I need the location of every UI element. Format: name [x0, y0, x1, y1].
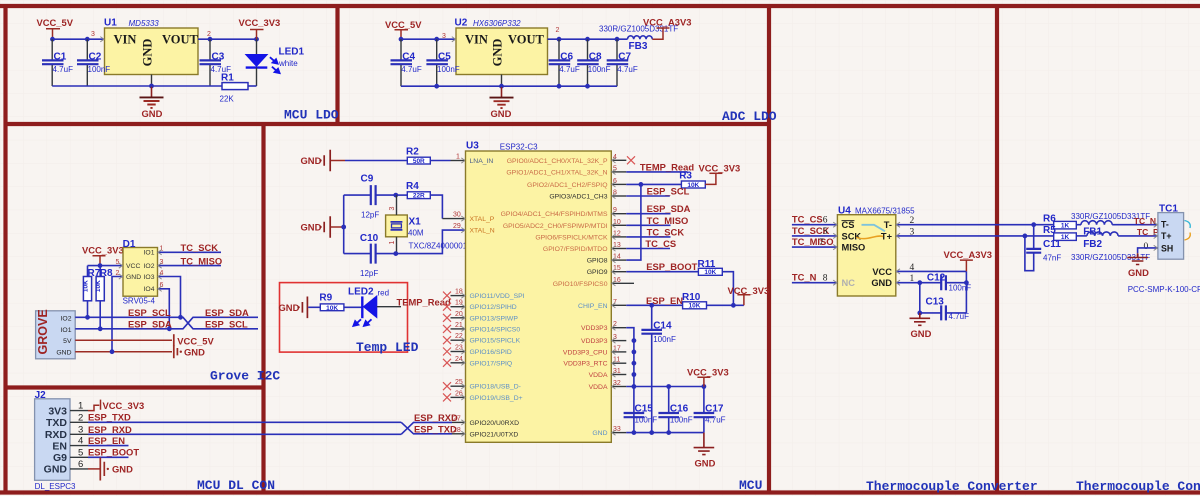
wire ESP_BOOT (J2)	[88, 456, 129, 458]
wire D1 GND down	[112, 277, 123, 352]
svg-text:GPIO17/SPIQ: GPIO17/SPIQ	[470, 360, 513, 367]
svg-text:GND: GND	[592, 430, 607, 437]
power flag VCC_5V (ADC)	[385, 19, 422, 39]
wire TC_SCK (pin12)	[626, 236, 670, 238]
node junction C6	[557, 37, 562, 42]
capacitor C11	[1025, 225, 1061, 271]
ground flag GND (crystal)	[301, 216, 344, 238]
svg-text:GND: GND	[142, 108, 163, 119]
svg-text:ESP_TXD: ESP_TXD	[414, 423, 457, 434]
svg-text:GPIO6/FSPICLK/MTCK: GPIO6/FSPICLK/MTCK	[535, 234, 608, 241]
svg-text:MCU DL CON: MCU DL CON	[197, 478, 275, 493]
wire ESP_SCL row	[75, 317, 258, 329]
node junction VDD pin11	[632, 361, 637, 366]
U3 left pin numbers	[453, 289, 463, 434]
LED LED2 red	[348, 286, 389, 326]
ground flag GND (R2)	[301, 150, 346, 172]
svg-text:GPIO10/FSPICS0: GPIO10/FSPICS0	[553, 281, 608, 288]
node junction pin6	[639, 182, 644, 187]
power flag VCC_3V3 (VDDA)	[687, 367, 729, 387]
svg-text:VCC_3V3: VCC_3V3	[103, 400, 145, 411]
wire GND bus (ADC)	[401, 85, 617, 87]
svg-text:G9: G9	[53, 452, 67, 464]
svg-text:1: 1	[160, 246, 164, 253]
wire TC_SCK	[792, 235, 838, 237]
svg-text:19: 19	[455, 300, 463, 307]
svg-text:R2: R2	[406, 147, 419, 158]
svg-text:C4: C4	[402, 51, 415, 62]
node junction C12/vertical	[964, 280, 969, 285]
connector GROVE	[36, 309, 76, 358]
svg-text:R9: R9	[319, 292, 332, 303]
svg-text:29: 29	[453, 223, 461, 230]
wire ESP_RXD/ESP_TXD crossover	[401, 422, 452, 434]
capacitor C14	[641, 305, 676, 432]
svg-text:GPIO9: GPIO9	[587, 269, 608, 276]
wire TC_MISO (pin10)	[626, 224, 670, 226]
wire XTAL_P	[442, 218, 465, 220]
divider left column / MCU box	[261, 124, 265, 492]
svg-text:VCC: VCC	[872, 267, 892, 277]
resistor R11	[698, 259, 723, 276]
wire U2 VOUT to FB3	[548, 38, 628, 40]
node junction C14 branch	[649, 303, 654, 308]
svg-text:IO1: IO1	[144, 250, 155, 257]
svg-text:VIN: VIN	[114, 33, 137, 47]
svg-text:4.7uF: 4.7uF	[949, 312, 970, 321]
divider MCU / Thermocouple Converter	[767, 6, 771, 492]
node junction VDD pin17	[632, 350, 637, 355]
capacitor C17	[694, 387, 726, 433]
svg-text:U1: U1	[104, 18, 117, 29]
svg-text:HX6306P332: HX6306P332	[473, 19, 521, 28]
svg-text:ESP_SCL: ESP_SCL	[647, 186, 690, 197]
power flag VCC_3V3	[239, 17, 281, 39]
U3 right pin numbers	[613, 154, 621, 433]
svg-text:GPIO15/SPICLK: GPIO15/SPICLK	[470, 338, 521, 345]
capacitor C4	[391, 39, 422, 86]
capacitor C1	[42, 39, 73, 86]
node junction X1 top	[393, 193, 398, 198]
wire VCC to D1	[88, 265, 124, 267]
svg-text:1: 1	[456, 154, 460, 161]
resistor R10	[682, 292, 707, 310]
svg-text:100nF: 100nF	[437, 65, 460, 74]
wire U2 GND pin	[501, 75, 503, 87]
svg-text:1: 1	[389, 241, 396, 245]
sheet border top	[0, 4, 1200, 8]
svg-text:CS: CS	[842, 220, 855, 230]
node junction C11 bottom	[1023, 234, 1028, 239]
svg-text:VCC_A3V3: VCC_A3V3	[643, 17, 691, 28]
resistor R5	[1043, 225, 1076, 241]
wire GND to R2	[345, 160, 407, 162]
svg-text:C12: C12	[927, 272, 946, 283]
svg-text:ESP_SDA: ESP_SDA	[647, 203, 691, 214]
svg-text:3: 3	[91, 31, 95, 38]
svg-text:VCC_5V: VCC_5V	[385, 19, 422, 30]
ground flag GND (R9)	[279, 297, 321, 319]
svg-text:GND: GND	[911, 328, 932, 339]
pin stubs J2	[70, 411, 88, 469]
svg-text:TC_CS: TC_CS	[645, 238, 676, 249]
svg-text:VDD3P3: VDD3P3	[581, 338, 608, 345]
ferrite bead FB3	[599, 25, 678, 53]
svg-text:VCC: VCC	[126, 263, 140, 270]
svg-text:10K: 10K	[95, 280, 102, 292]
svg-text:R6: R6	[1043, 213, 1056, 224]
svg-text:SRV05-4: SRV05-4	[123, 297, 156, 306]
svg-text:GPIO7/FSPID/MTDO: GPIO7/FSPID/MTDO	[543, 246, 608, 253]
svg-text:TEMP_Read: TEMP_Read	[397, 296, 451, 307]
svg-text:C10: C10	[360, 233, 379, 244]
svg-text:VCC_3V3: VCC_3V3	[82, 244, 124, 255]
svg-text:ESP_BOOT: ESP_BOOT	[646, 261, 697, 272]
resistor R1	[220, 73, 257, 104]
wire VCC_5V to U2 VIN	[401, 38, 456, 40]
svg-text:white: white	[278, 59, 298, 68]
svg-text:23: 23	[455, 345, 463, 352]
svg-text:LNA_IN: LNA_IN	[470, 158, 494, 165]
wire pin6 to pin14 vertical	[626, 184, 641, 260]
capacitor C16	[658, 387, 692, 433]
svg-text:4.7uF: 4.7uF	[401, 65, 422, 74]
svg-text:20: 20	[455, 311, 463, 318]
ground GND (U1)	[140, 86, 164, 108]
sheet border bottom	[0, 490, 1200, 494]
wire R3 to VCC_3V3	[705, 173, 716, 184]
wire ESP_EN (pin7)	[626, 304, 744, 306]
svg-text:GND: GND	[491, 108, 512, 119]
svg-text:IO3: IO3	[144, 274, 155, 281]
svg-text:VOUT: VOUT	[162, 33, 199, 47]
svg-text:GND: GND	[1128, 267, 1149, 278]
connector J2	[35, 390, 76, 491]
svg-text:100nF: 100nF	[588, 65, 611, 74]
wire D1 IO1 TC_SCK	[158, 251, 222, 253]
svg-text:ESP_SDA: ESP_SDA	[128, 319, 172, 330]
U3 right pin names	[501, 158, 608, 437]
svg-text:X1: X1	[409, 217, 422, 228]
svg-text:R8: R8	[100, 268, 113, 279]
power flag VCC_A3V3 (U4)	[944, 249, 992, 271]
wire VDD3P3 bus vertical	[626, 328, 634, 433]
svg-text:T-: T-	[884, 220, 892, 230]
wire D1 IO3 to ESP_SCL	[158, 277, 181, 318]
resistor R6	[1043, 213, 1076, 229]
U3 left pin names	[470, 158, 525, 438]
wire T+ out	[896, 235, 1054, 237]
svg-text:4.7uF: 4.7uF	[53, 65, 74, 74]
wire GND (U4)	[896, 282, 941, 284]
thermocouple IC U4	[837, 206, 915, 297]
svg-text:ESP32-C3: ESP32-C3	[500, 142, 538, 151]
svg-text:red: red	[378, 288, 390, 297]
svg-text:GPIO21/U0TXD: GPIO21/U0TXD	[470, 431, 519, 438]
node junction GND/C15	[632, 430, 637, 435]
svg-text:100nF: 100nF	[88, 65, 111, 74]
svg-text:1: 1	[78, 401, 83, 412]
svg-text:TC_MISO: TC_MISO	[181, 255, 223, 266]
divider below LDO boxes	[6, 122, 770, 126]
svg-text:C2: C2	[89, 51, 102, 62]
node junction bus/VDDA	[632, 384, 637, 389]
svg-text:C9: C9	[361, 173, 374, 184]
MCU U3 body	[466, 141, 612, 443]
no-connect X pin 4	[627, 156, 635, 164]
svg-text:TC_SCK: TC_SCK	[647, 226, 685, 237]
node junction GND bus (ADC)	[499, 84, 504, 89]
svg-text:4: 4	[78, 436, 83, 447]
wire pin6 to R3	[626, 183, 681, 185]
svg-text:FB2: FB2	[1083, 239, 1102, 250]
resistor R2	[406, 147, 430, 166]
svg-text:50R: 50R	[413, 158, 425, 165]
svg-text:22R: 22R	[413, 193, 425, 200]
svg-text:GPIO16/SPID: GPIO16/SPID	[470, 349, 512, 356]
pin chevrons	[461, 293, 465, 298]
Temp LED sub-box	[280, 283, 408, 353]
svg-text:U3: U3	[466, 141, 479, 152]
U3 left unused pin stubs with no-connect X	[451, 296, 466, 398]
svg-text:GPIO12/SPIHD: GPIO12/SPIHD	[470, 304, 517, 311]
svg-text:10K: 10K	[689, 303, 701, 310]
svg-text:C7: C7	[618, 51, 631, 62]
wire D1 IO4 to ESP_SDA	[158, 289, 170, 329]
wire XTAL_N	[396, 230, 466, 254]
divider MCU LDO / ADC LDO	[335, 6, 339, 124]
capacitor C2	[77, 39, 110, 86]
svg-text:ESP_RXD: ESP_RXD	[414, 412, 458, 423]
svg-text:22: 22	[455, 333, 463, 340]
svg-text:R3: R3	[679, 171, 692, 182]
wire ESP_SDA (pin9)	[626, 213, 670, 215]
node junction GND/C13	[917, 280, 922, 285]
svg-text:GPIO19/USB_D+: GPIO19/USB_D+	[470, 395, 523, 402]
wire GND row (pin33)	[626, 432, 704, 434]
svg-text:PCC-SMP-K-100-CF: PCC-SMP-K-100-CF	[1128, 285, 1200, 294]
node junction LED1 top	[254, 37, 259, 42]
ferrite bead FB1	[1071, 212, 1158, 237]
svg-text:IO2: IO2	[144, 263, 155, 270]
svg-text:C16: C16	[670, 403, 689, 414]
svg-text:GPIO0/ADC1_CH0/XTAL_32K_P: GPIO0/ADC1_CH0/XTAL_32K_P	[507, 158, 608, 165]
svg-text:C14: C14	[653, 321, 672, 332]
ground GND (U2)	[490, 86, 514, 108]
wire TEMP_Read (pin5)	[626, 171, 687, 173]
wire ESP_SDA row	[75, 317, 258, 329]
svg-text:GPIO2/ADC1_CH2/FSPIQ: GPIO2/ADC1_CH2/FSPIQ	[527, 182, 607, 189]
svg-text:LED2: LED2	[348, 286, 374, 297]
node junction C7	[615, 37, 620, 42]
sheet border left	[3, 4, 7, 493]
svg-text:VDDA: VDDA	[589, 384, 608, 391]
svg-text:ESP_BOOT: ESP_BOOT	[88, 447, 139, 458]
svg-text:6: 6	[78, 459, 83, 470]
ground GND (U3)	[694, 433, 715, 455]
svg-text:100nF: 100nF	[635, 416, 658, 425]
node junction X1 bottom	[393, 251, 398, 256]
resistor R9	[319, 292, 344, 311]
node junction bus C8	[585, 84, 590, 89]
svg-text:IO4: IO4	[144, 286, 155, 293]
svg-text:10K: 10K	[704, 269, 716, 276]
svg-text:1K: 1K	[1061, 234, 1070, 241]
svg-text:ESP_TXD: ESP_TXD	[88, 412, 131, 423]
svg-text:2: 2	[556, 27, 560, 34]
wire LED2 to TEMP_Read	[377, 306, 401, 308]
power flag VCC_5V (Grove)	[174, 334, 215, 346]
svg-text:TXC/8Z40000017: TXC/8Z40000017	[409, 242, 473, 251]
svg-text:VCC_3V3: VCC_3V3	[239, 17, 281, 28]
wire J2 pin6 GND	[88, 468, 100, 470]
svg-text:TC_N: TC_N	[1134, 216, 1156, 226]
svg-text:R4: R4	[406, 181, 419, 192]
svg-text:3: 3	[78, 424, 83, 435]
node junction C5	[434, 37, 439, 42]
crystal X1	[386, 195, 473, 254]
svg-text:100nF: 100nF	[653, 335, 676, 344]
resistor R8	[95, 266, 113, 329]
svg-text:Grove I2C: Grove I2C	[210, 369, 280, 384]
svg-text:VDD3P3_RTC: VDD3P3_RTC	[563, 361, 607, 368]
wire VCC_5V top bus	[53, 38, 105, 40]
svg-text:47nF: 47nF	[1043, 253, 1061, 262]
power flag VCC_5V	[37, 17, 74, 39]
svg-text:22K: 22K	[220, 95, 235, 104]
svg-text:VIN: VIN	[465, 33, 488, 47]
svg-text:21: 21	[455, 322, 463, 329]
svg-text:MCU: MCU	[739, 478, 762, 493]
svg-text:C5: C5	[438, 51, 451, 62]
svg-text:MAX6675/31855: MAX6675/31855	[855, 207, 915, 216]
ground flag GND (Grove)	[174, 345, 205, 358]
node junction C17 top	[702, 384, 707, 389]
wire ESP_SCL (pin8)	[626, 195, 670, 197]
svg-text:1K: 1K	[1061, 222, 1070, 229]
svg-text:VCC_5V: VCC_5V	[177, 335, 214, 346]
svg-text:DL_ESPC3: DL_ESPC3	[35, 482, 76, 491]
svg-text:VCC_A3V3: VCC_A3V3	[944, 249, 992, 260]
wire TC_N	[792, 282, 838, 284]
svg-text:GND: GND	[279, 302, 300, 313]
node junction C2	[85, 37, 90, 42]
svg-text:CHIP_EN: CHIP_EN	[578, 303, 608, 310]
capacitor C6	[549, 39, 580, 86]
power flag VCC_3V3 (ESP_EN)	[728, 285, 770, 305]
pin numbers J2	[78, 401, 83, 470]
svg-text:GPIO11/VDD_SPI: GPIO11/VDD_SPI	[470, 293, 525, 300]
capacitor C3	[200, 39, 232, 86]
svg-text:T-: T-	[1161, 220, 1169, 230]
node junction VCC_5V/C1	[50, 37, 55, 42]
svg-text:GND: GND	[491, 39, 505, 67]
svg-text:MISO: MISO	[842, 243, 866, 253]
svg-text:U2: U2	[455, 18, 468, 29]
wire TC_CS (pin13)	[626, 248, 670, 250]
svg-text:ESP_SCL: ESP_SCL	[205, 319, 248, 330]
svg-text:TC_SCK: TC_SCK	[181, 242, 219, 253]
svg-text:12pF: 12pF	[360, 269, 378, 278]
wire VDDA row (pin32)	[626, 386, 704, 388]
svg-text:ESP_SCL: ESP_SCL	[128, 307, 171, 318]
svg-text:GND: GND	[56, 350, 71, 357]
svg-text:SCK: SCK	[842, 231, 862, 241]
svg-text:VCC_3V3: VCC_3V3	[728, 285, 770, 296]
wire GROVE 5V	[75, 339, 172, 341]
wire ESP_BOOT (pin15) to R11	[626, 271, 698, 273]
svg-text:NC: NC	[842, 278, 856, 288]
svg-text:GPIO13/SPIWP: GPIO13/SPIWP	[470, 315, 519, 322]
svg-text:T+: T+	[1161, 231, 1172, 241]
svg-text:TC_CS: TC_CS	[792, 214, 823, 225]
svg-text:Thermocouple Con: Thermocouple Con	[1076, 479, 1200, 494]
regulator U2	[455, 18, 548, 75]
svg-text:40M: 40M	[408, 229, 424, 238]
svg-text:GND: GND	[301, 222, 322, 233]
svg-text:26: 26	[455, 390, 463, 397]
svg-text:R11: R11	[698, 259, 716, 270]
node junction bus C6	[557, 84, 562, 89]
svg-text:12pF: 12pF	[361, 211, 379, 220]
capacitor C13	[920, 283, 969, 321]
svg-text:TC_MISO: TC_MISO	[647, 215, 689, 226]
svg-text:C8: C8	[589, 51, 602, 62]
svg-text:3: 3	[389, 207, 396, 211]
ferrite bead FB2	[1071, 232, 1158, 262]
U3 right pin stubs	[611, 160, 634, 432]
wire ESP_TXD long	[88, 421, 401, 423]
svg-text:GPIO8: GPIO8	[587, 258, 608, 265]
svg-text:24: 24	[455, 356, 463, 363]
svg-text:RXD: RXD	[45, 429, 68, 441]
svg-text:5V: 5V	[63, 338, 72, 345]
svg-text:GPIO5/ADC2_CH0/FSPIWP/MTDI: GPIO5/ADC2_CH0/FSPIWP/MTDI	[503, 223, 608, 230]
svg-text:TC_N: TC_N	[792, 272, 817, 283]
svg-text:GND: GND	[871, 278, 892, 288]
wire TC_MISO	[792, 246, 838, 248]
node junction R7/SCL	[85, 315, 90, 320]
wire crystal left vertical	[343, 195, 345, 254]
svg-text:XTAL_P: XTAL_P	[470, 216, 495, 223]
svg-text:5: 5	[116, 259, 120, 266]
node junction GND bus	[149, 84, 154, 89]
svg-text:TC_P: TC_P	[1137, 227, 1159, 237]
wire D1 IO2 TC_MISO	[158, 265, 222, 267]
connector TC1	[1158, 204, 1190, 260]
svg-text:VDD3P3_CPU: VDD3P3_CPU	[563, 349, 608, 356]
node junction GND/C14	[649, 430, 654, 435]
svg-text:3: 3	[160, 259, 164, 266]
wire GND bus bottom	[52, 85, 222, 87]
svg-text:VCC_5V: VCC_5V	[37, 17, 74, 28]
svg-text:10K: 10K	[326, 305, 338, 312]
power flag VCC_A3V3	[643, 17, 691, 28]
svg-text:ESP_RXD: ESP_RXD	[88, 424, 132, 435]
node junction C13 left	[917, 311, 922, 316]
node junction GND/vertical	[341, 225, 346, 230]
svg-text:C11: C11	[1043, 239, 1061, 250]
svg-text:C13: C13	[926, 296, 945, 307]
wire R2 to LNA_IN	[430, 160, 450, 162]
svg-text:4.7uF: 4.7uF	[617, 65, 638, 74]
wire SH to GND	[1138, 248, 1158, 253]
svg-text:GND: GND	[301, 155, 322, 166]
resistor R4	[396, 181, 443, 219]
svg-text:MCU LDO: MCU LDO	[284, 108, 339, 123]
svg-text:Temp LED: Temp LED	[356, 340, 419, 355]
svg-text:ESP_SDA: ESP_SDA	[205, 307, 249, 318]
